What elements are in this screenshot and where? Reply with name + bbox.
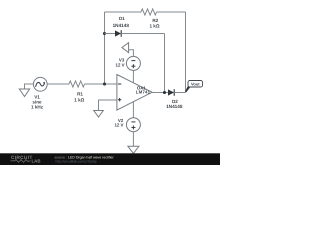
wire: V2 bottom to ground xyxy=(132,132,134,147)
svg-text:R1: R1 xyxy=(77,92,83,97)
svg-text:1N4148: 1N4148 xyxy=(166,104,183,109)
resistor R1 xyxy=(69,81,85,87)
ground (V1) xyxy=(19,89,29,97)
diode D2 xyxy=(168,89,174,96)
pin: non-inverting input plus sign xyxy=(118,98,121,101)
node: inverting input junction xyxy=(103,82,106,85)
wire: R1 to inverting input xyxy=(85,83,117,85)
wire: op-amp bottom supply pin to V2 xyxy=(132,102,134,118)
watermark logo LAB xyxy=(11,159,41,164)
svg-text:http://circuitlab.com/c/7p65p: http://circuitlab.com/c/7p65p xyxy=(56,160,97,164)
wire: D1 anode segment xyxy=(105,33,116,35)
svg-text:R2: R2 xyxy=(152,18,158,23)
node: output junction with D1 branch xyxy=(163,91,166,94)
node flag Vout xyxy=(188,81,203,88)
op-amp OA1 xyxy=(117,75,152,111)
svg-text:12 V: 12 V xyxy=(114,123,123,128)
svg-text:1 kHz: 1 kHz xyxy=(31,104,44,109)
voltage source V2 xyxy=(126,118,140,132)
pin: inverting input minus sign xyxy=(118,83,121,85)
wire: D1 cathode segment xyxy=(121,33,164,35)
node: junction dot D1 branch tap xyxy=(103,32,106,35)
wire: D2 cathode to Vout node xyxy=(174,92,185,94)
voltage source V3 xyxy=(126,56,140,70)
svg-text:12 V: 12 V xyxy=(116,62,125,67)
wire: V3 top to supply arrow xyxy=(129,50,134,57)
wire: top feedback left segment xyxy=(105,11,142,13)
ground (op-amp + input) xyxy=(94,111,104,118)
watermark source line xyxy=(55,155,115,159)
ground (V2) xyxy=(128,146,139,153)
supply arrow flag (V3) xyxy=(122,43,129,53)
wire: top feedback right segment xyxy=(157,11,186,13)
wire: op-amp top supply pin to V3 xyxy=(132,70,134,82)
node flag Vout stem xyxy=(185,86,191,92)
svg-text:1 kΩ: 1 kΩ xyxy=(74,97,84,102)
wire: D1 branch vertical down to op-amp output xyxy=(164,34,166,93)
wire: right vertical from R2 to output node xyxy=(185,12,187,93)
svg-text:LAB: LAB xyxy=(32,159,41,164)
resistor R2 xyxy=(141,9,157,15)
voltage source V1 (sine) xyxy=(33,77,47,91)
svg-text:source : LED Organ half wave r: source : LED Organ half wave rectifier xyxy=(55,155,115,159)
svg-text:1 kΩ: 1 kΩ xyxy=(149,24,159,29)
wire: left vertical inverting node to top xyxy=(104,12,106,84)
diode D1 xyxy=(115,30,121,37)
svg-text:D1: D1 xyxy=(119,16,125,21)
wire: op-amp output segment xyxy=(152,92,168,94)
wire: V1 left stub to ground xyxy=(25,84,34,89)
wire: V1 to R1 xyxy=(47,83,69,85)
svg-text:LM741: LM741 xyxy=(136,90,151,95)
svg-text:1N4148: 1N4148 xyxy=(113,23,130,28)
svg-text:Vout: Vout xyxy=(191,81,200,86)
watermark bar xyxy=(0,153,220,165)
wire: non-inverting input to ground xyxy=(99,100,117,111)
